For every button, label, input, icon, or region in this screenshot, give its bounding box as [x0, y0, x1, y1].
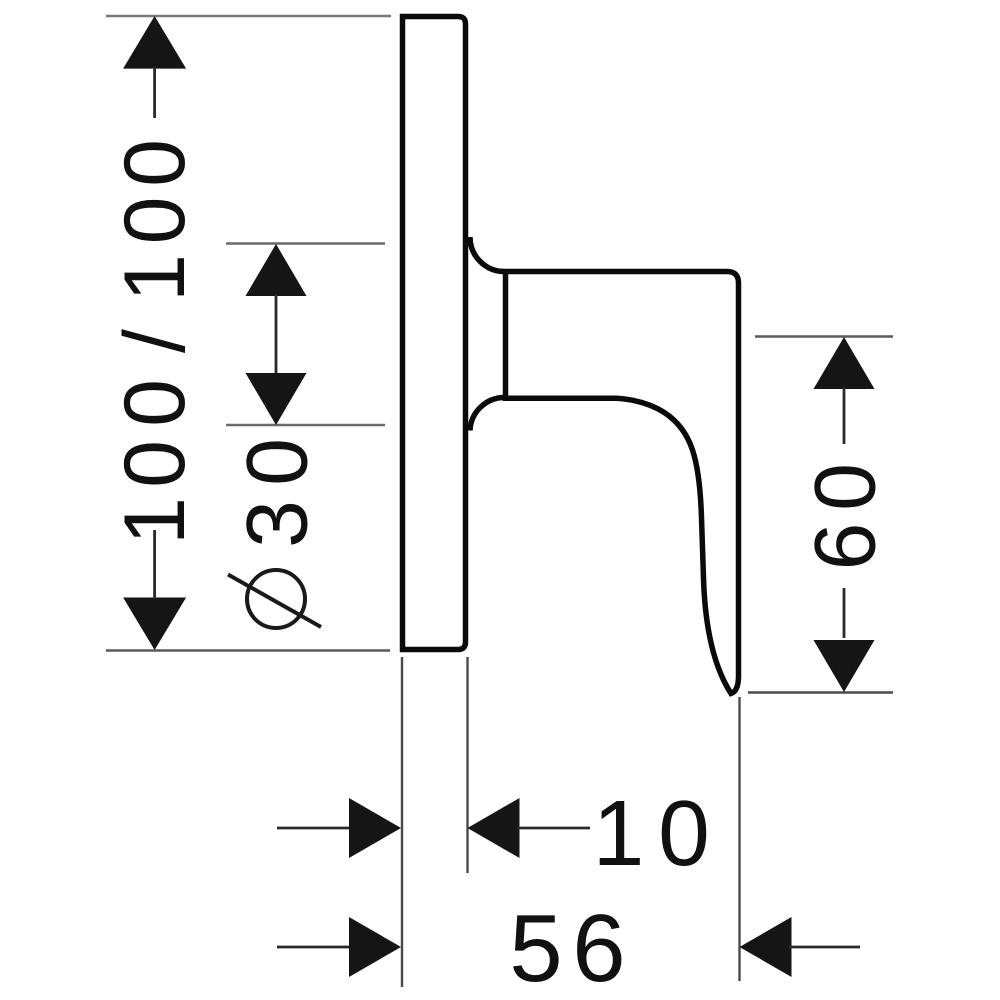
neck fillet bottom	[470, 397, 505, 430]
handle lever	[506, 272, 739, 694]
dimension label 30	[230, 438, 326, 548]
extension line top (plate top level)	[106, 15, 391, 18]
dimension 56 right arrow	[740, 917, 792, 977]
svg-text:1: 1	[107, 497, 203, 545]
dimension label 100/100	[107, 139, 203, 545]
extension line neck top	[226, 242, 385, 244]
svg-text:0: 0	[107, 440, 203, 488]
dimension 100/100 arrow down	[123, 598, 186, 651]
svg-text:0: 0	[658, 781, 710, 885]
diameter symbol	[228, 570, 321, 628]
extension line below handle tip	[738, 697, 740, 981]
svg-text:0: 0	[107, 379, 203, 427]
svg-text:5: 5	[509, 895, 562, 1000]
svg-text:0: 0	[107, 139, 203, 187]
dimension 100/100 arrow up	[123, 16, 186, 69]
extension line below plate left face	[401, 657, 403, 987]
svg-text:6: 6	[572, 895, 625, 1000]
svg-text:0: 0	[798, 463, 894, 511]
dimension 56 left arrow	[277, 946, 351, 949]
extension line bottom (plate bottom level)	[106, 649, 390, 651]
neck fillet top	[470, 237, 505, 272]
dimension 30 arrow up	[246, 244, 307, 296]
dimension label 56	[509, 895, 625, 1000]
svg-text:0: 0	[107, 197, 203, 245]
extension line below plate right face	[466, 657, 468, 873]
dimension 10 left arrow	[277, 827, 351, 830]
escutcheon plate	[403, 17, 466, 650]
dimension 30 arrow down	[246, 373, 307, 425]
svg-text:3: 3	[230, 500, 326, 548]
dimension 60 arrow down	[814, 640, 875, 692]
extension line neck bottom	[226, 424, 385, 426]
svg-text:6: 6	[798, 523, 894, 571]
svg-text:0: 0	[230, 438, 326, 486]
dimension label 60	[798, 463, 894, 570]
dimension label 10	[593, 781, 710, 885]
dimension 30 tail	[275, 294, 278, 374]
svg-text:1: 1	[593, 781, 645, 885]
extension line handle top right	[755, 335, 893, 337]
svg-text:1: 1	[107, 254, 203, 302]
svg-text:/: /	[107, 329, 203, 353]
dimension 10 right arrow	[468, 798, 520, 858]
dimension 60 arrow up	[814, 337, 875, 389]
extension line handle bottom right	[748, 691, 893, 693]
